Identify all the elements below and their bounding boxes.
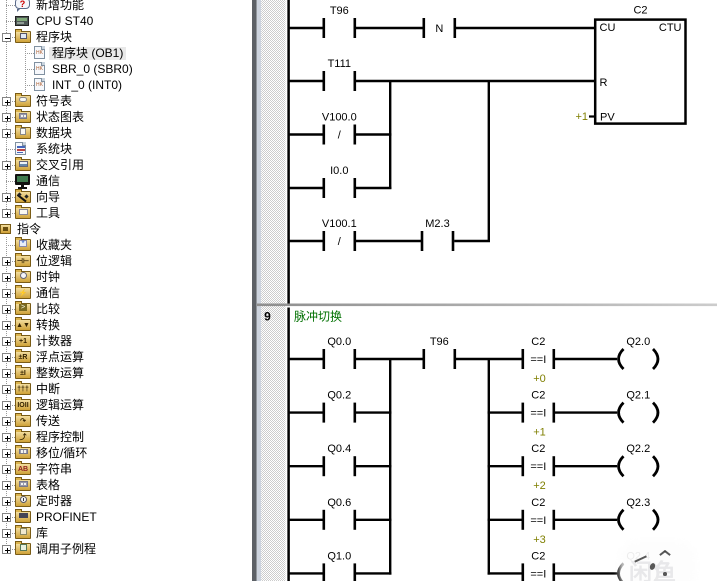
svg-text:+0: +0 bbox=[533, 373, 546, 385]
wire fan-out junction to comparator row 4 bbox=[488, 519, 524, 521]
wire rail to Q1.0 bbox=[289, 572, 324, 574]
coil Q2.3 bbox=[619, 497, 659, 530]
svg-text:I0.0: I0.0 bbox=[330, 165, 348, 177]
svg-text:Q1.0: Q1.0 bbox=[327, 550, 351, 562]
svg-text:==I: ==I bbox=[530, 515, 546, 527]
wire comparator to coil Q2.1 bbox=[555, 411, 618, 413]
margin dither strip bbox=[261, 0, 285, 581]
svg-text:Q0.2: Q0.2 bbox=[327, 390, 351, 402]
contact V100.0 normally-closed bbox=[322, 112, 357, 145]
tree guide line program block children bbox=[25, 45, 26, 93]
svg-text:C2: C2 bbox=[531, 497, 545, 509]
tree guide line section 1 bbox=[6, 0, 7, 213]
wire rail to I0.0 bbox=[289, 187, 324, 189]
junction branch rail (M2.3 to R line) bbox=[488, 81, 490, 242]
coil Q2.1 bbox=[619, 390, 659, 423]
svg-text:Q2.0: Q2.0 bbox=[626, 336, 650, 348]
svg-text:==I: ==I bbox=[530, 354, 546, 366]
svg-text:M2.3: M2.3 bbox=[425, 218, 449, 230]
contact T111 bbox=[324, 58, 355, 91]
wire comparator to coil Q2.4 bbox=[555, 572, 618, 574]
network 9 number bbox=[264, 310, 271, 324]
svg-text:Q2.3: Q2.3 bbox=[626, 497, 650, 509]
wire rail to Q0.6 bbox=[289, 519, 324, 521]
svg-text:+1: +1 bbox=[533, 427, 546, 439]
wire Q0.6 to OR junction bbox=[356, 519, 391, 521]
wire T111 to counter R pin bbox=[356, 80, 595, 82]
comparator contact C2 ==I +0 bbox=[523, 336, 554, 385]
contact T96 (network 8) bbox=[324, 5, 355, 38]
contact Q0.0 bbox=[324, 336, 355, 369]
wire I0.0 to junction bbox=[356, 187, 391, 189]
svg-text:脉冲切换: 脉冲切换 bbox=[294, 309, 342, 324]
svg-text:C2: C2 bbox=[531, 550, 545, 562]
wire rail to Q0.4 bbox=[289, 465, 324, 467]
svg-text:V100.0: V100.0 bbox=[322, 112, 357, 124]
svg-text:PV: PV bbox=[600, 112, 615, 124]
wire M2.3 to junction bbox=[454, 240, 490, 242]
wire Q1.0 to OR junction bbox=[356, 572, 391, 574]
comparator contact C2 ==I +1 bbox=[523, 390, 554, 439]
svg-text:+2: +2 bbox=[533, 480, 546, 492]
svg-text:C2: C2 bbox=[531, 443, 545, 455]
wire rail to T96 bbox=[289, 27, 324, 29]
PV preset value +1 bbox=[575, 111, 596, 123]
svg-text:==I: ==I bbox=[530, 568, 546, 580]
svg-text:T111: T111 bbox=[328, 58, 351, 70]
svg-text:C2: C2 bbox=[633, 5, 647, 17]
svg-text:Q0.4: Q0.4 bbox=[327, 443, 351, 455]
wire Q0.4 to OR junction bbox=[356, 465, 391, 467]
wire comparator to coil Q2.3 bbox=[555, 519, 618, 521]
comparator contact C2 ==I +2 bbox=[523, 443, 554, 492]
fan-out junction rail (after T96) bbox=[488, 359, 490, 575]
network 9 title 脉冲切换 bbox=[294, 309, 342, 324]
svg-text:Q2.1: Q2.1 bbox=[626, 390, 650, 402]
wire fan-out junction to comparator row 2 bbox=[488, 411, 524, 413]
wire rail to V100.0 bbox=[289, 133, 324, 135]
contact Q0.2 bbox=[324, 390, 355, 423]
watermark bbox=[624, 546, 691, 581]
wire comparator to coil Q2.0 bbox=[555, 358, 618, 360]
wire fan-out junction to comparator row 5 bbox=[488, 572, 524, 574]
svg-text:/: / bbox=[338, 130, 342, 142]
comparator contact C2 ==I +4 bbox=[523, 550, 554, 581]
wire rail to Q0.0 bbox=[289, 358, 324, 360]
wire T96 to N contact bbox=[356, 27, 424, 29]
network separator bar bbox=[257, 304, 717, 307]
coil Q2.4 bbox=[619, 550, 659, 581]
svg-text:/: / bbox=[338, 236, 342, 248]
contact I0.0 bbox=[324, 165, 355, 198]
splitter light band bbox=[257, 0, 262, 581]
tree guide line instructions section bbox=[6, 237, 7, 552]
svg-text:R: R bbox=[600, 77, 608, 89]
svg-text:+3: +3 bbox=[533, 534, 546, 546]
contact Q0.6 bbox=[324, 497, 355, 530]
svg-text:N: N bbox=[435, 23, 443, 35]
OR-branch junction rail (Q contacts) bbox=[389, 359, 391, 575]
svg-text:9: 9 bbox=[264, 310, 271, 324]
svg-text:CTU: CTU bbox=[659, 22, 682, 34]
junction branch rail (V100.0/I0.0 OR) bbox=[389, 81, 391, 189]
svg-text:Q0.0: Q0.0 bbox=[327, 336, 351, 348]
power rail (network 9 left bus) bbox=[287, 308, 290, 581]
svg-text:Q0.6: Q0.6 bbox=[327, 497, 351, 509]
wire rail to Q0.2 bbox=[289, 411, 324, 413]
power rail (network 8 left bus) bbox=[287, 0, 290, 304]
contact V100.1 normally-closed bbox=[322, 218, 357, 251]
splitter dark band bbox=[252, 0, 257, 581]
wire comparator to coil Q2.2 bbox=[555, 465, 618, 467]
counter U C2 CTU box bbox=[595, 5, 685, 124]
wire rail to V100.1 bbox=[289, 240, 324, 242]
svg-text:==I: ==I bbox=[530, 408, 546, 420]
svg-text:Q2.2: Q2.2 bbox=[626, 443, 650, 455]
svg-text:V100.1: V100.1 bbox=[322, 218, 357, 230]
wire Q0.2 to OR junction bbox=[356, 411, 391, 413]
contact Q0.4 bbox=[324, 443, 355, 476]
wire V100.0 to junction bbox=[356, 133, 391, 135]
svg-text:==I: ==I bbox=[530, 461, 546, 473]
wire Q0.0 to OR junction bbox=[356, 358, 425, 360]
comparator contact C2 ==I +3 bbox=[523, 497, 554, 546]
contact T96 (network 9) bbox=[424, 336, 455, 369]
wire fan-out junction to comparator row 3 bbox=[488, 465, 524, 467]
svg-text:+1: +1 bbox=[575, 111, 588, 123]
coil Q2.0 bbox=[619, 336, 659, 369]
contact Q1.0 bbox=[324, 550, 355, 581]
contact M2.3 bbox=[422, 218, 453, 251]
wire N contact to counter CU pin bbox=[456, 27, 595, 29]
contact N negative-edge bbox=[424, 18, 455, 38]
wire V100.1 to M2.3 bbox=[356, 240, 422, 242]
wire T96 to fan-out junction and comparator bbox=[456, 358, 524, 360]
svg-text:CU: CU bbox=[600, 22, 616, 34]
svg-text:T96: T96 bbox=[430, 336, 449, 348]
svg-text:C2: C2 bbox=[531, 390, 545, 402]
coil Q2.2 bbox=[619, 443, 659, 476]
svg-text:T96: T96 bbox=[330, 5, 349, 17]
svg-text:C2: C2 bbox=[531, 336, 545, 348]
wire rail to T111 bbox=[289, 80, 324, 82]
